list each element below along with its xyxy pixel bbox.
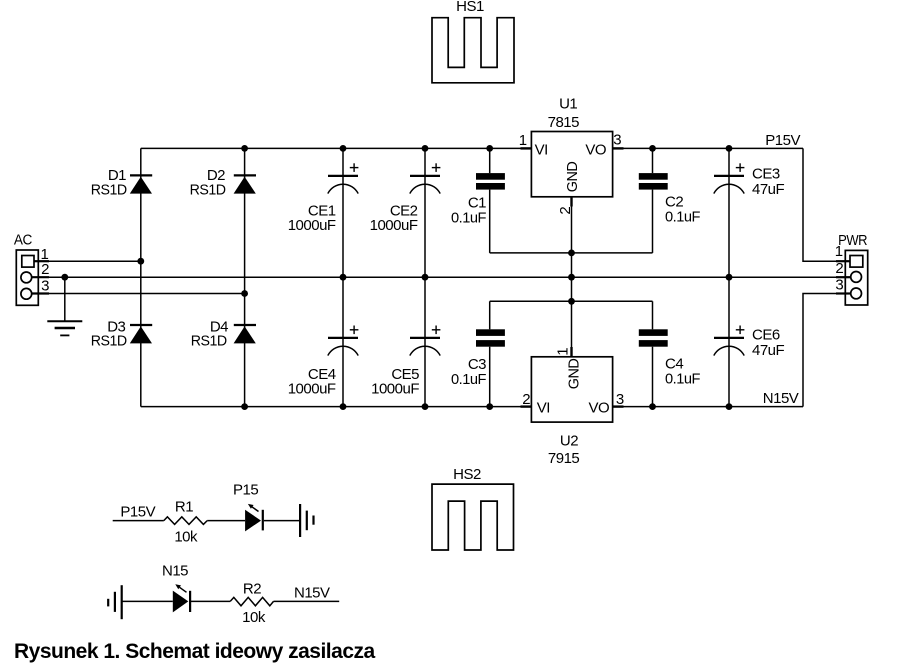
- svg-text:RS1D: RS1D: [91, 181, 128, 198]
- diode D3: [130, 325, 152, 343]
- wire C3-GND-C4 link: [490, 300, 653, 302]
- wire negative bottom rail left: [141, 406, 532, 408]
- PWR pin number 3: [835, 277, 843, 294]
- wire C4 column top: [652, 301, 654, 329]
- junction C3 bottom rail: [486, 403, 493, 410]
- svg-text:HS2: HS2: [453, 466, 481, 483]
- node N15V LED: [294, 584, 330, 601]
- wire CE6 column: [728, 277, 730, 406]
- svg-text:0.1uF: 0.1uF: [451, 371, 486, 388]
- wire C4 column bottom: [652, 347, 654, 407]
- capacitor C1: [476, 173, 505, 190]
- junction ground tap: [61, 274, 68, 281]
- ground P15: [300, 504, 313, 537]
- svg-text:2: 2: [835, 260, 843, 277]
- junction U1 GND link: [568, 250, 575, 257]
- wire N15V corner to PWR pin3: [803, 294, 851, 407]
- label U1: [559, 95, 577, 112]
- svg-text:0.1uF: 0.1uF: [451, 210, 486, 227]
- junction CE3 mid rail: [726, 274, 733, 281]
- wire negative bottom rail right: [613, 406, 803, 408]
- node N15V: [763, 390, 799, 407]
- label R2 10k: [242, 609, 266, 626]
- label C1 0.1uF: [451, 195, 486, 227]
- ground N15: [108, 585, 122, 619]
- wire R2 to N15V: [274, 600, 340, 602]
- capacitor C3: [476, 329, 505, 346]
- svg-text:AC: AC: [14, 232, 33, 249]
- wire ground to LED N15: [122, 600, 173, 602]
- label CE5 1000uF: [371, 366, 419, 398]
- junction pin3/D2D4: [241, 290, 248, 297]
- label D4 RS1D: [191, 318, 228, 349]
- svg-text:N15V: N15V: [294, 584, 330, 601]
- svg-text:U1: U1: [559, 95, 577, 112]
- label N15: [162, 562, 188, 579]
- svg-text:U2: U2: [560, 433, 578, 450]
- U1 pin stubs: [521, 147, 624, 149]
- label CE3 47uF: [752, 166, 785, 199]
- LED P15: [245, 504, 263, 532]
- capacitor CE2: [410, 163, 441, 193]
- label CE6 47uF: [752, 327, 785, 360]
- U1 VO label: [585, 142, 606, 159]
- svg-text:N15V: N15V: [763, 390, 799, 407]
- PWR pin number 2: [835, 260, 843, 277]
- wire D2 D4 column: [244, 148, 246, 406]
- wire AC pin3 to diode column: [32, 293, 245, 295]
- label C2 0.1uF: [665, 194, 700, 226]
- wire CE2 CE5 column: [424, 148, 426, 406]
- capacitor CE3: [714, 163, 745, 193]
- svg-text:RS1D: RS1D: [191, 332, 228, 349]
- svg-text:R2: R2: [243, 581, 261, 598]
- wire C2 column bottom: [652, 190, 654, 253]
- wire U2 GND pin: [571, 277, 573, 357]
- diode D1: [130, 175, 152, 193]
- svg-text:1000uF: 1000uF: [371, 381, 419, 398]
- junction D4 bottom rail: [241, 403, 248, 410]
- label CE4 1000uF: [288, 366, 336, 398]
- svg-text:10k: 10k: [242, 609, 266, 626]
- label AC: [14, 232, 33, 249]
- svg-text:7915: 7915: [548, 450, 580, 467]
- junction CE1 top: [340, 145, 347, 152]
- label R2: [243, 581, 261, 598]
- svg-text:1: 1: [555, 348, 572, 356]
- svg-text:RS1D: RS1D: [190, 181, 227, 198]
- svg-text:R1: R1: [175, 499, 193, 516]
- node P15V LED feed: [120, 503, 155, 520]
- U2 pin 2 label: [522, 391, 530, 408]
- op-amp U1 regulator 7815: [531, 132, 612, 197]
- wire C2 column top: [652, 148, 654, 173]
- U1 VI label: [535, 142, 548, 159]
- junction C1 top rail: [486, 145, 493, 152]
- AC pin number 3: [41, 277, 49, 294]
- svg-text:1000uF: 1000uF: [288, 217, 336, 234]
- svg-text:P15V: P15V: [120, 503, 155, 520]
- svg-text:3: 3: [835, 277, 843, 294]
- capacitor CE1: [328, 163, 359, 193]
- AC pin number 2: [41, 261, 49, 278]
- wire U1 GND pin: [571, 197, 573, 277]
- junction D2 top rail: [241, 145, 248, 152]
- U2 pin 1 label: [555, 348, 572, 356]
- svg-text:VI: VI: [535, 142, 548, 159]
- wire AC pin1 to diode column: [34, 260, 141, 262]
- junction CE2 top: [422, 145, 429, 152]
- svg-text:1: 1: [835, 243, 843, 260]
- label C3 0.1uF: [451, 356, 486, 388]
- label CE2 1000uF: [370, 203, 418, 234]
- label R1: [175, 499, 193, 516]
- wire LED N15 to R2: [190, 600, 230, 602]
- svg-text:VO: VO: [589, 400, 610, 417]
- capacitor CE6: [714, 326, 745, 356]
- svg-text:CE6: CE6: [752, 327, 780, 344]
- junction C4 bottom rail: [649, 403, 656, 410]
- U2 pin 3 label: [616, 391, 624, 408]
- svg-text:VO: VO: [585, 142, 606, 159]
- label 7915: [548, 450, 580, 467]
- svg-text:1000uF: 1000uF: [288, 381, 336, 398]
- svg-text:1000uF: 1000uF: [370, 217, 418, 234]
- label D1 RS1D: [91, 167, 128, 198]
- resistor R2: [230, 597, 273, 605]
- junction U2 GND link: [568, 298, 575, 305]
- wire C1-GND-C2 link: [490, 252, 653, 254]
- capacitor CE4: [328, 326, 359, 356]
- wire P15V to R1: [113, 520, 164, 522]
- svg-text:0.1uF: 0.1uF: [665, 371, 700, 388]
- svg-text:10k: 10k: [174, 528, 198, 545]
- resistor R1: [164, 517, 207, 525]
- junction GND mid rail: [568, 274, 575, 281]
- ground: [47, 277, 82, 335]
- PWR pin number 1: [835, 243, 843, 260]
- label HS1: [456, 0, 484, 15]
- AC pin number 1: [40, 246, 48, 263]
- wire C3 column bottom: [489, 347, 491, 407]
- svg-text:P15: P15: [233, 482, 258, 499]
- connector PWR: [845, 250, 867, 305]
- svg-text:GND: GND: [564, 161, 581, 192]
- connector AC: [16, 250, 38, 305]
- label U2: [560, 433, 578, 450]
- label PWR: [838, 232, 868, 249]
- label 7815: [548, 114, 580, 131]
- junction CE6 bottom rail: [726, 403, 733, 410]
- svg-text:3: 3: [41, 277, 49, 294]
- junction CE4 bottom: [340, 403, 347, 410]
- svg-text:CE3: CE3: [752, 166, 780, 183]
- op-amp U2 regulator 7915: [531, 357, 612, 422]
- heatsink HS1: [432, 18, 514, 83]
- wire GND mid rail: [32, 276, 851, 278]
- label D2 RS1D: [190, 167, 227, 198]
- label HS2: [453, 466, 481, 483]
- svg-text:N15: N15: [162, 562, 188, 579]
- label CE1 1000uF: [288, 203, 336, 234]
- capacitor C4: [639, 329, 668, 346]
- U1 pin 3 label: [613, 132, 621, 149]
- diode D2: [234, 175, 256, 193]
- svg-text:3: 3: [613, 132, 621, 149]
- wire C3 column top: [489, 301, 491, 329]
- svg-text:47uF: 47uF: [752, 181, 785, 198]
- node P15V: [765, 132, 800, 149]
- wire positive top rail right: [613, 147, 803, 149]
- junction CE5 bottom: [422, 403, 429, 410]
- svg-text:2: 2: [522, 391, 530, 408]
- svg-text:2: 2: [41, 261, 49, 278]
- junction CE1 mid: [340, 274, 347, 281]
- svg-text:0.1uF: 0.1uF: [665, 209, 700, 226]
- U2 GND label: [565, 358, 582, 389]
- caption Rysunek 1: [14, 640, 375, 663]
- svg-text:RS1D: RS1D: [91, 332, 128, 349]
- U1 GND label: [564, 161, 581, 192]
- heatsink HS2: [432, 484, 514, 550]
- svg-text:3: 3: [616, 391, 624, 408]
- wire LED P15 to ground: [264, 520, 300, 522]
- wire C1 column bottom: [489, 190, 491, 253]
- svg-text:VI: VI: [537, 400, 550, 417]
- diode D4: [234, 325, 256, 343]
- junction C2 top rail: [649, 145, 656, 152]
- wire C1 column top: [489, 148, 491, 173]
- wire D1 D3 column: [140, 148, 142, 406]
- wire CE3 column: [728, 148, 730, 277]
- wire P15V corner to PWR pin1: [803, 148, 850, 261]
- label R1 10k: [174, 528, 198, 545]
- U1 pin 1 label: [519, 132, 527, 149]
- svg-text:7815: 7815: [548, 114, 580, 131]
- LED N15: [173, 584, 190, 612]
- wire CE1 CE4 column: [342, 148, 344, 406]
- U2 VO label: [589, 400, 610, 417]
- junction pin1/D1D3: [137, 258, 144, 265]
- wire R1 to LED P15: [207, 520, 245, 522]
- label D3 RS1D: [91, 318, 128, 349]
- U2 VI label: [537, 400, 550, 417]
- svg-text:47uF: 47uF: [752, 342, 785, 359]
- svg-text:HS1: HS1: [456, 0, 484, 15]
- label P15: [233, 482, 258, 499]
- wire positive top rail left: [141, 147, 532, 149]
- label C4 0.1uF: [665, 356, 700, 388]
- svg-text:P15V: P15V: [765, 132, 800, 149]
- U2 pin stubs: [521, 405, 624, 407]
- junction CE3 top rail: [726, 145, 733, 152]
- svg-text:1: 1: [519, 132, 527, 149]
- capacitor CE5: [410, 326, 441, 356]
- U1 pin 2 label: [557, 207, 574, 215]
- junction CE2 mid: [422, 274, 429, 281]
- capacitor C2: [639, 173, 668, 190]
- svg-text:Rysunek 1. Schemat ideowy zasi: Rysunek 1. Schemat ideowy zasilacza: [14, 640, 375, 663]
- svg-text:GND: GND: [565, 358, 582, 389]
